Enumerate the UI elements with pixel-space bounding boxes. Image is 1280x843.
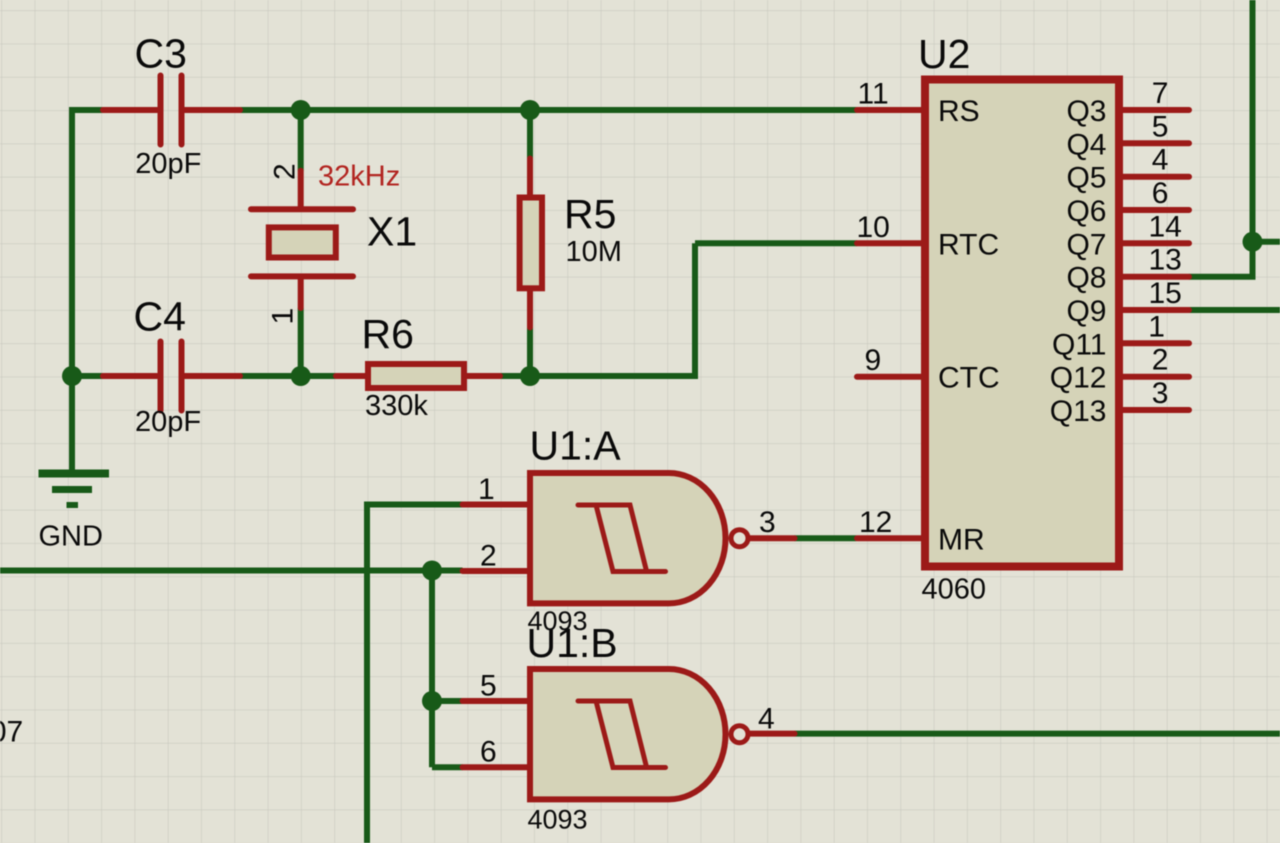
svg-text:RS: RS bbox=[938, 95, 980, 128]
svg-text:6: 6 bbox=[480, 736, 497, 769]
svg-text:1: 1 bbox=[478, 473, 495, 506]
svg-text:C4: C4 bbox=[134, 294, 186, 340]
svg-text:R6: R6 bbox=[362, 311, 414, 357]
svg-text:Q9: Q9 bbox=[1066, 295, 1106, 328]
svg-text:4060: 4060 bbox=[922, 574, 987, 606]
svg-text:X1: X1 bbox=[367, 209, 417, 255]
svg-text:GND: GND bbox=[39, 521, 103, 553]
svg-text:Q12: Q12 bbox=[1050, 362, 1107, 395]
svg-text:1: 1 bbox=[267, 308, 300, 325]
svg-text:R5: R5 bbox=[564, 191, 616, 237]
svg-text:5: 5 bbox=[480, 670, 497, 703]
svg-text:10M: 10M bbox=[566, 236, 622, 268]
svg-text:13: 13 bbox=[1149, 244, 1182, 277]
svg-text:Q3: Q3 bbox=[1066, 95, 1106, 128]
svg-text:9: 9 bbox=[865, 344, 882, 377]
svg-text:11: 11 bbox=[858, 78, 889, 111]
svg-text:14: 14 bbox=[1149, 210, 1182, 243]
svg-text:5: 5 bbox=[1152, 110, 1169, 143]
svg-text:12: 12 bbox=[859, 506, 892, 539]
svg-text:7: 7 bbox=[1152, 77, 1169, 110]
svg-text:10: 10 bbox=[857, 211, 890, 244]
svg-text:2: 2 bbox=[480, 540, 497, 573]
svg-text:Q4: Q4 bbox=[1066, 128, 1106, 161]
svg-text:3: 3 bbox=[1152, 377, 1169, 410]
svg-text:Q13: Q13 bbox=[1050, 395, 1107, 428]
svg-text:2: 2 bbox=[269, 163, 302, 180]
svg-text:Q11: Q11 bbox=[1052, 328, 1106, 361]
svg-text:6: 6 bbox=[1152, 177, 1169, 210]
svg-text:U1:A: U1:A bbox=[530, 423, 622, 469]
svg-text:07: 07 bbox=[0, 716, 23, 749]
svg-text:Q5: Q5 bbox=[1066, 162, 1106, 195]
svg-text:Q6: Q6 bbox=[1066, 195, 1106, 228]
svg-text:330k: 330k bbox=[365, 390, 428, 422]
svg-text:4: 4 bbox=[1152, 144, 1169, 177]
svg-text:32kHz: 32kHz bbox=[318, 161, 400, 193]
svg-text:CTC: CTC bbox=[938, 362, 1000, 395]
svg-text:Q7: Q7 bbox=[1066, 228, 1106, 261]
svg-text:4: 4 bbox=[758, 703, 775, 736]
svg-text:2: 2 bbox=[1152, 344, 1169, 377]
svg-text:15: 15 bbox=[1149, 277, 1182, 310]
svg-text:1: 1 bbox=[1148, 310, 1165, 343]
svg-text:C3: C3 bbox=[135, 31, 187, 77]
svg-text:20pF: 20pF bbox=[135, 406, 201, 438]
svg-text:Q8: Q8 bbox=[1066, 262, 1106, 295]
svg-text:4093: 4093 bbox=[528, 606, 588, 636]
svg-text:20pF: 20pF bbox=[135, 148, 201, 180]
svg-text:4093: 4093 bbox=[528, 805, 588, 835]
svg-text:U2: U2 bbox=[918, 31, 970, 77]
svg-text:3: 3 bbox=[759, 506, 776, 539]
svg-text:MR: MR bbox=[938, 523, 985, 556]
svg-text:RTC: RTC bbox=[938, 228, 999, 261]
